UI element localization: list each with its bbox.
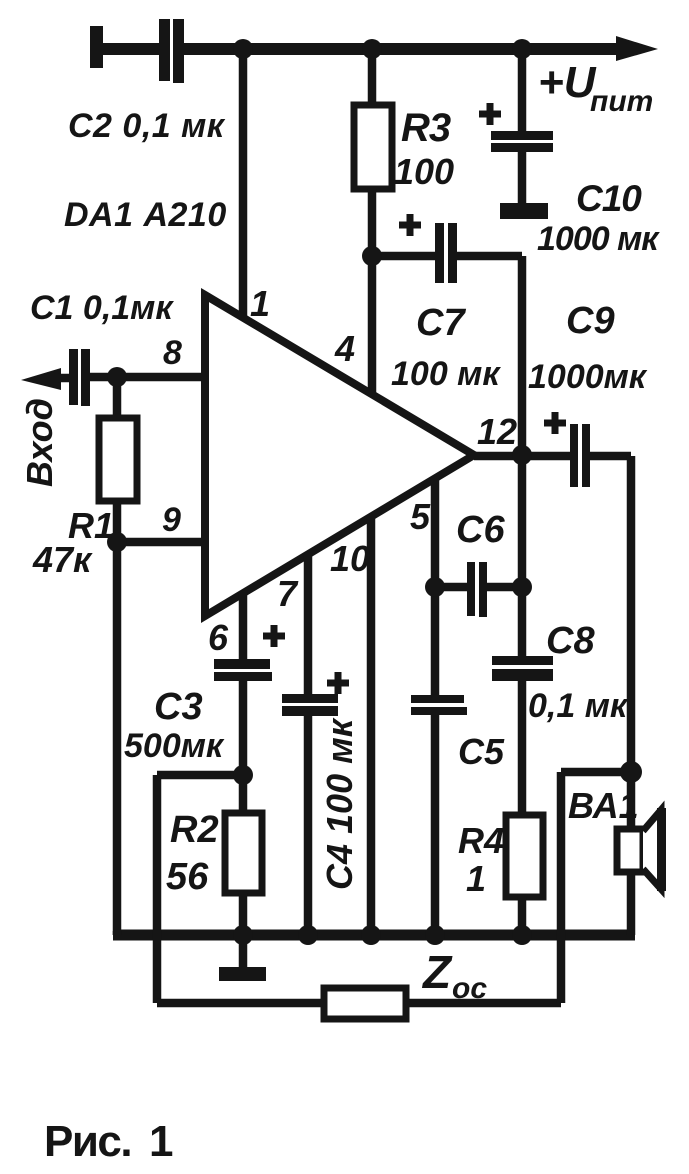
svg-text:1000мк: 1000мк (528, 358, 648, 396)
svg-text:1: 1 (250, 283, 270, 324)
svg-text:12: 12 (477, 411, 517, 452)
svg-text:56: 56 (166, 856, 209, 898)
svg-text:R4: R4 (458, 820, 504, 861)
svg-text:ВА1: ВА1 (568, 785, 639, 826)
svg-text:47к: 47к (32, 539, 93, 580)
svg-text:100: 100 (394, 151, 454, 192)
svg-text:ос: ос (452, 972, 487, 1005)
svg-text:1: 1 (466, 858, 486, 899)
svg-text:5: 5 (410, 496, 431, 537)
svg-text:10: 10 (330, 538, 370, 579)
svg-text:1000 мк: 1000 мк (537, 220, 660, 258)
svg-text:Рис.: Рис. (44, 1117, 131, 1166)
svg-text:100 мк: 100 мк (391, 355, 501, 393)
svg-text:C10: C10 (576, 178, 642, 219)
svg-text:С3: С3 (154, 686, 203, 728)
svg-text:7: 7 (277, 573, 299, 614)
svg-text:1: 1 (149, 1117, 173, 1166)
svg-text:DA1 А210: DA1 А210 (64, 196, 227, 234)
svg-text:9: 9 (162, 501, 181, 539)
svg-text:С6: С6 (456, 509, 505, 551)
svg-text:С7: С7 (416, 302, 466, 344)
svg-text:С4 100 мк: С4 100 мк (319, 717, 360, 890)
svg-text:4: 4 (334, 328, 355, 369)
svg-text:Вход: Вход (19, 398, 60, 487)
svg-text:R2: R2 (170, 809, 219, 851)
svg-text:6: 6 (208, 617, 229, 658)
svg-text:+U: +U (538, 58, 597, 107)
svg-text:500мк: 500мк (124, 727, 225, 765)
svg-text:8: 8 (163, 334, 182, 372)
svg-text:Z: Z (421, 946, 453, 998)
svg-text:С5: С5 (458, 731, 505, 772)
svg-text:С1 0,1мк: С1 0,1мк (30, 289, 174, 327)
svg-text:R3: R3 (401, 106, 451, 150)
svg-text:0,1 мк: 0,1 мк (528, 687, 629, 725)
svg-text:С2 0,1 мк: С2 0,1 мк (68, 107, 226, 145)
svg-text:пит: пит (590, 85, 653, 118)
svg-text:С8: С8 (546, 620, 595, 662)
svg-text:С9: С9 (566, 300, 615, 342)
